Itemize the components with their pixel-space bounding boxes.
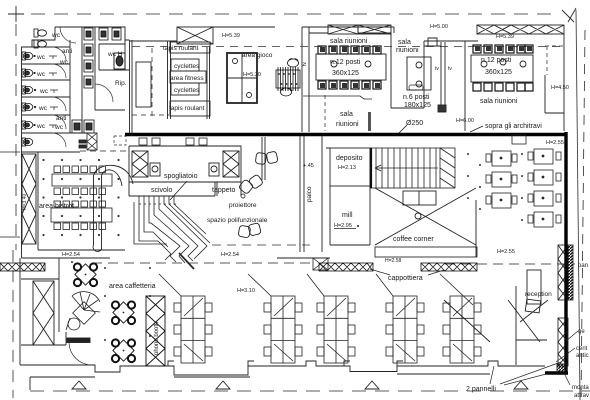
svg-text:cyclettes: cyclettes <box>174 63 200 70</box>
svg-text:H=3.40: H=3.40 <box>22 194 28 210</box>
bean bags <box>238 151 278 238</box>
credenza line left room <box>303 96 372 99</box>
boundary slanted right <box>576 10 580 400</box>
stairs lower-left <box>134 181 210 269</box>
svg-text:wc: wc <box>39 88 49 95</box>
svg-text:pan: pan <box>578 263 588 269</box>
reception <box>444 270 548 365</box>
svg-text:tappeto: tappeto <box>212 187 235 194</box>
bottom outer walls <box>20 258 545 390</box>
dashed level line H254 <box>212 244 310 246</box>
door caffetteria <box>69 343 92 365</box>
svg-text:H=5.00: H=5.00 <box>430 24 448 30</box>
svg-text:H=5.39: H=5.39 <box>496 34 514 40</box>
urinal stack <box>84 28 121 88</box>
dots caffetteria <box>71 261 151 341</box>
dashed level line y46 <box>132 46 565 48</box>
svg-text:anti: anti <box>62 48 72 55</box>
round tables caffetteria <box>74 263 135 362</box>
svg-text:wc: wc <box>36 54 46 61</box>
leader o250 <box>399 125 407 133</box>
svg-text:n.12 posti: n.12 posti <box>330 59 361 66</box>
chairs above left table <box>318 46 381 89</box>
svg-text:wc: wc <box>36 123 46 130</box>
cyclettes box 1 <box>171 59 199 71</box>
svg-text:tapis roulant: tapis roulant <box>163 45 199 52</box>
wc labels <box>36 32 127 131</box>
wc corridor walls <box>70 27 129 133</box>
small box on bold wall <box>512 135 526 144</box>
n6 table <box>407 57 431 90</box>
svg-text:wc H: wc H <box>107 51 123 58</box>
dotted floor area bistrot <box>42 159 119 236</box>
desk col A <box>492 151 511 166</box>
fitness area <box>130 27 275 119</box>
dashed mid right <box>445 263 575 265</box>
svg-text:tv: tv <box>448 66 452 72</box>
bold bottom-right cap <box>545 371 568 374</box>
svg-text:n.6 posti: n.6 posti <box>403 94 430 101</box>
west wall middle <box>0 152 330 258</box>
benches <box>150 163 160 176</box>
boundary dashed right <box>581 30 585 400</box>
svg-text:wc: wc <box>51 32 61 39</box>
svg-text:H=5.39: H=5.39 <box>222 33 240 39</box>
fitness left annex <box>136 62 151 107</box>
svg-text:Rip.: Rip. <box>115 80 127 87</box>
svg-text:area bistrot: area bistrot <box>39 203 74 210</box>
svg-text:scivolo: scivolo <box>151 187 173 194</box>
svg-text:H=2.55: H=2.55 <box>546 140 564 146</box>
svg-text:360x125: 360x125 <box>485 69 512 76</box>
spogliatoio room <box>129 137 265 196</box>
svg-text:palco: palco <box>306 186 313 202</box>
svg-text:tv: tv <box>435 66 439 72</box>
svg-text:+.45: +.45 <box>303 163 314 169</box>
bold horizontal wall <box>125 133 567 137</box>
fitness top wall <box>130 27 275 119</box>
svg-text:tv: tv <box>302 62 308 66</box>
cyclettes box 2 <box>171 83 199 95</box>
svg-text:sala: sala <box>398 39 411 46</box>
svg-text:anti: anti <box>56 115 66 122</box>
cappottiera strips <box>0 263 477 271</box>
lockers strip crossed left <box>22 154 36 244</box>
svg-text:monta: monta <box>572 385 589 391</box>
svg-text:mill: mill <box>342 212 353 219</box>
leader lines desks <box>159 274 473 305</box>
svg-text:antic: antic <box>576 353 589 359</box>
svg-text:reception: reception <box>525 291 552 298</box>
mullion strip <box>441 42 445 105</box>
counter under coffee <box>375 247 477 257</box>
svg-text:H=2.54: H=2.54 <box>62 252 80 258</box>
svg-text:proiettore: proiettore <box>229 202 257 209</box>
svg-text:H=2.95: H=2.95 <box>334 223 352 229</box>
main staircase <box>370 148 455 188</box>
phone booth <box>146 296 165 366</box>
dashed opening top spogliatoio <box>114 136 126 145</box>
svg-text:360x125: 360x125 <box>332 70 359 77</box>
right mid office desks <box>486 149 561 227</box>
crossed boxes row left <box>328 25 391 34</box>
gioco table <box>227 53 257 103</box>
column bar <box>368 112 371 131</box>
right labels <box>572 263 589 399</box>
axis bottom dashed <box>30 390 590 392</box>
sala riunioni walls <box>302 27 478 132</box>
svg-text:phone booth: phone booth <box>154 322 160 355</box>
svg-text:area fitness: area fitness <box>170 75 204 82</box>
axis left dashed <box>15 24 17 250</box>
svg-text:tapis roulant: tapis roulant <box>169 105 205 112</box>
svg-text:sala riunioni: sala riunioni <box>330 38 368 45</box>
desk clusters bottom <box>174 296 481 363</box>
sink n6 <box>409 85 423 90</box>
plant <box>66 292 100 330</box>
deposito room <box>322 136 370 252</box>
tapis roulant box 1 <box>170 42 210 53</box>
bistrot table 1 <box>52 166 112 195</box>
svg-text:Ø250: Ø250 <box>406 120 423 127</box>
svg-text:wc: wc <box>38 105 48 112</box>
crossed boxes wc bottom <box>87 133 97 150</box>
svg-text:H=2.58: H=2.58 <box>385 258 401 264</box>
svg-text:deposito: deposito <box>336 155 363 162</box>
wc H fixture <box>114 53 125 69</box>
svg-text:coffee corner: coffee corner <box>393 236 434 243</box>
svg-text:wc: wc <box>59 59 69 66</box>
svg-text:cappottiera: cappottiera <box>388 275 423 282</box>
tapis roulant box 2 <box>170 101 210 116</box>
crossed boxes row right <box>477 25 564 34</box>
svg-text:spogliatoio: spogliatoio <box>164 173 198 180</box>
palco stage <box>300 136 304 252</box>
axis left dashed lower <box>12 250 14 398</box>
bold vertical east wall <box>564 132 567 374</box>
caffetteria service walls <box>21 258 92 365</box>
svg-text:area caffetteria: area caffetteria <box>109 283 156 290</box>
dots right office <box>467 153 523 221</box>
svg-text:H=4.50: H=4.50 <box>551 85 569 91</box>
dashed partition <box>324 95 326 131</box>
locker crossed boxes <box>132 151 148 177</box>
svg-text:cyclettes: cyclettes <box>174 87 200 94</box>
triangles bottom <box>72 381 528 389</box>
svg-text:sala riunioni: sala riunioni <box>480 98 518 105</box>
svg-text:H=3.10: H=3.10 <box>237 288 255 294</box>
area fitness box <box>170 71 206 83</box>
svg-text:H=5.30: H=5.30 <box>243 72 261 78</box>
wc internal walls <box>21 47 92 152</box>
n12 table left <box>316 54 386 80</box>
fitness crossed box <box>177 27 213 44</box>
svg-text:wc: wc <box>36 71 46 78</box>
tv marks <box>302 62 452 72</box>
svg-text:180x125: 180x125 <box>404 102 431 109</box>
slide chute <box>93 165 133 251</box>
proiettore <box>241 194 245 198</box>
svg-text:attrav: attrav <box>574 393 589 399</box>
crossed cabinet caffetteria <box>33 281 54 345</box>
svg-text:wc: wc <box>54 124 64 131</box>
svg-text:sala: sala <box>340 111 353 118</box>
leader sopra gli architravi <box>470 126 483 132</box>
axis cross top-left <box>8 6 24 22</box>
svg-text:n.12 posti: n.12 posti <box>481 57 512 64</box>
wc lower fixtures <box>72 120 94 148</box>
axis cross top-right <box>562 8 576 22</box>
wc door arcs <box>52 27 113 147</box>
svg-text:qe: qe <box>578 329 585 335</box>
svg-text:H=6.00: H=6.00 <box>456 118 474 124</box>
svg-text:sopra gli architravi: sopra gli architravi <box>485 123 542 130</box>
svg-text:cent: cent <box>576 346 588 352</box>
wc toilets column <box>22 29 47 146</box>
door jambs spogliatoio top <box>139 138 207 145</box>
plumbing tees <box>34 55 58 128</box>
svg-text:2 pannelli: 2 pannelli <box>466 386 496 393</box>
n12 table right <box>471 55 533 82</box>
right room walls <box>465 34 564 131</box>
svg-text:H=2.13: H=2.13 <box>338 165 356 171</box>
bistrot table 2 <box>51 201 112 230</box>
fitness labels <box>163 33 273 112</box>
wc outer walls <box>22 27 133 258</box>
foosball table <box>276 59 300 96</box>
svg-text:riunioni: riunioni <box>336 121 359 128</box>
svg-text:riunioni: riunioni <box>396 47 419 54</box>
svg-text:spazio polifunzionale: spazio polifunzionale <box>207 217 268 224</box>
right column crossed boxes <box>557 245 573 373</box>
coffee corner X area <box>375 188 476 257</box>
svg-text:H=2.54: H=2.54 <box>221 252 239 258</box>
desk col B <box>534 149 553 164</box>
svg-text:H=2.55: H=2.55 <box>497 249 515 255</box>
axis top dashed <box>8 13 560 15</box>
